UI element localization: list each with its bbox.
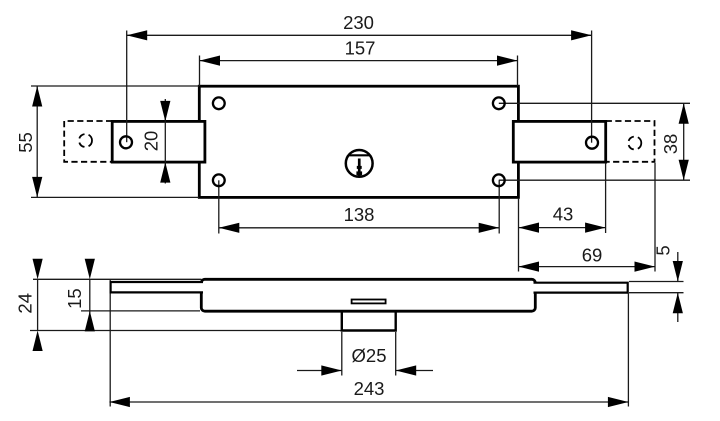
svg-text:Ø25: Ø25 xyxy=(352,345,387,366)
svg-text:230: 230 xyxy=(343,12,374,33)
svg-text:5: 5 xyxy=(653,245,674,255)
svg-text:24: 24 xyxy=(15,293,36,314)
svg-text:38: 38 xyxy=(660,134,681,155)
svg-text:138: 138 xyxy=(344,204,375,225)
svg-text:15: 15 xyxy=(64,288,85,309)
svg-text:20: 20 xyxy=(141,131,162,152)
svg-text:43: 43 xyxy=(553,204,574,225)
svg-text:69: 69 xyxy=(582,245,603,266)
svg-text:55: 55 xyxy=(15,132,36,153)
svg-text:243: 243 xyxy=(354,378,385,399)
svg-text:157: 157 xyxy=(345,38,376,59)
